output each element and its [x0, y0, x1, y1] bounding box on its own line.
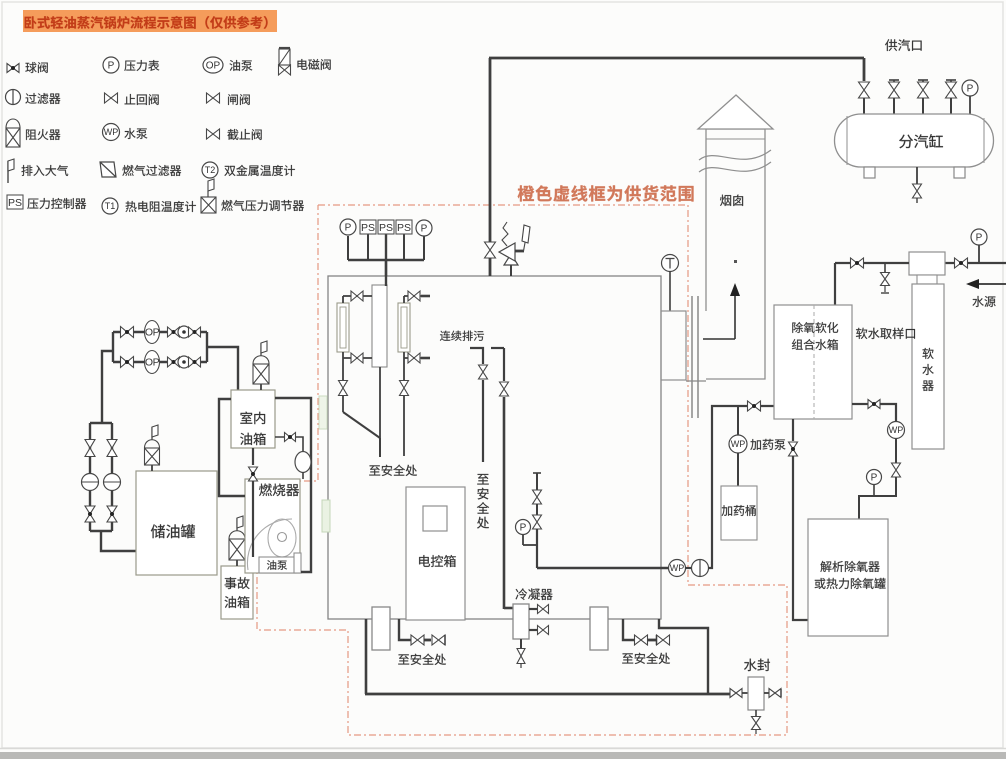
svg-text:PS: PS [8, 197, 22, 209]
svg-text:P: P [520, 523, 527, 534]
svg-text:P: P [345, 223, 352, 234]
svg-text:WP: WP [889, 425, 904, 435]
svg-text:P: P [976, 233, 983, 244]
svg-text:WP: WP [104, 127, 119, 137]
svg-text:P: P [871, 473, 878, 484]
svg-text:P: P [108, 61, 115, 72]
svg-text:PS: PS [397, 222, 411, 234]
svg-text:OP: OP [145, 357, 160, 369]
svg-text:OP: OP [206, 61, 221, 72]
svg-text:P: P [967, 84, 974, 95]
svg-text:P: P [421, 224, 428, 235]
svg-text:WP: WP [670, 563, 685, 573]
svg-text:PS: PS [379, 222, 393, 234]
svg-text:OP: OP [145, 327, 160, 339]
svg-text:T1: T1 [105, 201, 116, 211]
svg-text:WP: WP [731, 439, 746, 449]
svg-text:T2: T2 [205, 165, 216, 175]
svg-text:PS: PS [361, 222, 375, 234]
